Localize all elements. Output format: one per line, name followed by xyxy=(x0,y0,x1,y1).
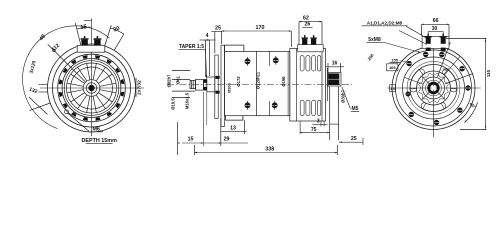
left view ray 135deg xyxy=(48,44,86,82)
right view horizontal centerline xyxy=(388,87,481,89)
svg-text:25: 25 xyxy=(351,136,357,142)
left view wedge ring inner circle xyxy=(62,59,121,118)
right view dim arc 45 xyxy=(465,102,478,122)
svg-text:29: 29 xyxy=(224,137,230,143)
dim 15 29 line xyxy=(182,142,248,144)
left view horizontal centerline xyxy=(40,87,144,89)
dim 13 xyxy=(221,131,247,133)
svg-text:2x7/32: 2x7/32 xyxy=(136,80,142,95)
svg-text:Ø156: Ø156 xyxy=(281,76,286,87)
right view 155 leader xyxy=(400,60,406,63)
terminal box xyxy=(298,45,324,52)
dim 25 rear xyxy=(339,141,363,143)
right view outer circle xyxy=(392,47,475,130)
svg-text:Ø200: Ø200 xyxy=(226,82,231,93)
svg-text:3x120: 3x120 xyxy=(28,60,36,74)
flange boss plate xyxy=(215,55,218,119)
svg-text:170: 170 xyxy=(256,25,265,31)
middle view centerline xyxy=(167,84,352,86)
shaft base section xyxy=(207,77,215,92)
left view center shaft dot xyxy=(89,85,95,91)
svg-text:132: 132 xyxy=(28,87,38,96)
left view M6 hole xyxy=(64,110,68,114)
shaft taper outline xyxy=(203,80,206,91)
svg-text:16: 16 xyxy=(332,61,338,67)
left view top tick xyxy=(84,20,92,22)
right view circle r11 xyxy=(423,77,445,99)
svg-text:30: 30 xyxy=(432,26,438,32)
right view window ends xyxy=(441,103,444,109)
svg-text:30: 30 xyxy=(113,26,121,34)
left view ray 160deg xyxy=(30,103,51,111)
body short divider bottom xyxy=(269,101,271,116)
rear shaft stub black xyxy=(328,73,339,85)
svg-text:25: 25 xyxy=(215,25,221,31)
left view inner circle xyxy=(67,63,117,113)
body through bolts xyxy=(245,59,250,64)
svg-text:Ø172: Ø172 xyxy=(236,76,241,87)
A1 leaders xyxy=(406,26,427,38)
dim 170 xyxy=(222,30,292,32)
svg-text:26: 26 xyxy=(305,22,311,28)
flange bearing hatch top xyxy=(215,76,219,79)
dim 66 xyxy=(422,23,449,25)
svg-text:Ø19.5: Ø19.5 xyxy=(171,98,176,110)
right view circle r23 xyxy=(410,65,457,112)
svg-text:15: 15 xyxy=(80,24,88,31)
svg-text:3: 3 xyxy=(317,118,320,124)
right view label 165 box xyxy=(387,64,398,71)
svg-text:13: 13 xyxy=(230,126,236,132)
svg-text:M16x1.5: M16x1.5 xyxy=(185,92,190,109)
right view circle r31 xyxy=(403,57,465,119)
right view extra ray A xyxy=(444,56,460,75)
svg-text:1.8: 1.8 xyxy=(390,87,395,91)
right view vertical centerline xyxy=(433,42,435,137)
right view extra ray B xyxy=(404,77,423,84)
right view terminal block xyxy=(422,36,449,48)
dim 75 xyxy=(300,132,329,134)
body top step xyxy=(224,44,244,46)
dim 4 xyxy=(200,39,216,41)
svg-text:70°: 70° xyxy=(443,67,449,72)
right view circle r26 xyxy=(407,62,460,115)
left view left ticks xyxy=(39,84,49,86)
right view brush windows xyxy=(421,103,446,112)
right view stud bases xyxy=(426,48,431,51)
brush housing slots xyxy=(300,56,304,71)
left view stator circle xyxy=(64,61,119,116)
right view label 18 box xyxy=(390,85,396,92)
brush housing xyxy=(290,49,326,122)
left view wedge ring outer circle xyxy=(58,54,126,122)
right view circle r17 xyxy=(417,71,451,105)
shaft mid section xyxy=(196,80,204,91)
brush housing inner line xyxy=(296,49,298,122)
right view bolts xyxy=(407,61,412,66)
right view second circle xyxy=(396,50,472,126)
left view outer housing circle xyxy=(48,44,136,132)
left view inner circle 2 xyxy=(71,67,113,109)
right view wave washer ring xyxy=(419,73,449,103)
left view ray 152deg low xyxy=(29,97,48,115)
dim 26 xyxy=(302,27,312,29)
dim 3 xyxy=(312,123,327,125)
shaft thread ticks xyxy=(191,80,193,88)
dim 25 mid xyxy=(211,31,221,33)
dim 110 xyxy=(446,37,487,39)
bottom ext lines xyxy=(176,122,178,155)
end cap lines xyxy=(321,52,323,121)
left view hole marker on arc xyxy=(53,49,56,52)
stub ext lines xyxy=(329,87,331,141)
right view ray 70 xyxy=(438,42,451,77)
dim 338 xyxy=(195,152,338,154)
left view rotor spokes xyxy=(100,90,116,93)
right view circle r8 xyxy=(426,80,442,96)
svg-text:155: 155 xyxy=(391,58,398,63)
right view hub xyxy=(429,83,439,93)
svg-text:Ø61: Ø61 xyxy=(176,75,181,84)
left view 31deg ray xyxy=(114,34,124,50)
middle terminal studs xyxy=(301,38,308,39)
shaft threaded tip xyxy=(190,80,196,88)
svg-text:A1,D1,A2,D2;M8: A1,D1,A2,D2;M8 xyxy=(367,21,403,26)
left view 15deg ray left xyxy=(75,23,81,45)
svg-text:4: 4 xyxy=(206,33,209,39)
body right double line xyxy=(287,51,289,115)
flange main plate xyxy=(221,45,225,126)
svg-text:66: 66 xyxy=(433,18,439,24)
motor body xyxy=(225,51,290,115)
dim 30 xyxy=(428,31,443,33)
shaft taper black bottom xyxy=(203,87,206,90)
dim 62 xyxy=(299,21,322,23)
body short divider top xyxy=(269,51,271,66)
left view terminal block xyxy=(77,45,105,52)
svg-text:Ø30h7: Ø30h7 xyxy=(341,89,346,102)
shaft ext lines left xyxy=(172,69,190,71)
svg-text:Ø82h7: Ø82h7 xyxy=(167,74,172,87)
svg-text:15: 15 xyxy=(188,137,194,143)
left view 17deg ray xyxy=(105,25,112,46)
right view inner bolt xyxy=(406,92,411,97)
body divider line xyxy=(256,51,258,115)
svg-text:112: 112 xyxy=(51,43,61,53)
left view vertical centerline xyxy=(91,19,93,137)
left view outer dim arc xyxy=(23,26,110,129)
left view hub inner circle xyxy=(86,83,97,94)
left view 15deg dim arc xyxy=(77,27,91,29)
dim 16 xyxy=(325,66,344,68)
svg-text:250: 250 xyxy=(366,52,375,61)
left view 30deg dim arc xyxy=(110,28,124,34)
left view hub circle xyxy=(83,80,100,97)
svg-text:Ø120h11: Ø120h11 xyxy=(256,71,261,89)
left view M6 leader xyxy=(68,113,90,131)
svg-text:338: 338 xyxy=(265,147,274,153)
svg-text:110: 110 xyxy=(486,69,491,77)
svg-text:75: 75 xyxy=(311,127,317,133)
left view pole wedges ring xyxy=(121,92,125,97)
dim 4 ext lines xyxy=(205,40,207,77)
left view right dim line xyxy=(135,78,137,97)
body foot step xyxy=(226,119,243,121)
right view terminal studs xyxy=(425,36,432,37)
right view X rays xyxy=(437,92,445,100)
rear shaft stub outline xyxy=(328,73,341,87)
flange bearing hatch bottom xyxy=(215,91,219,94)
left view terminal studs xyxy=(81,38,89,39)
left view flange circle xyxy=(53,49,131,127)
right view ray 20 xyxy=(445,74,473,84)
shaft taper black top xyxy=(203,80,206,83)
svg-text:165: 165 xyxy=(389,65,396,70)
